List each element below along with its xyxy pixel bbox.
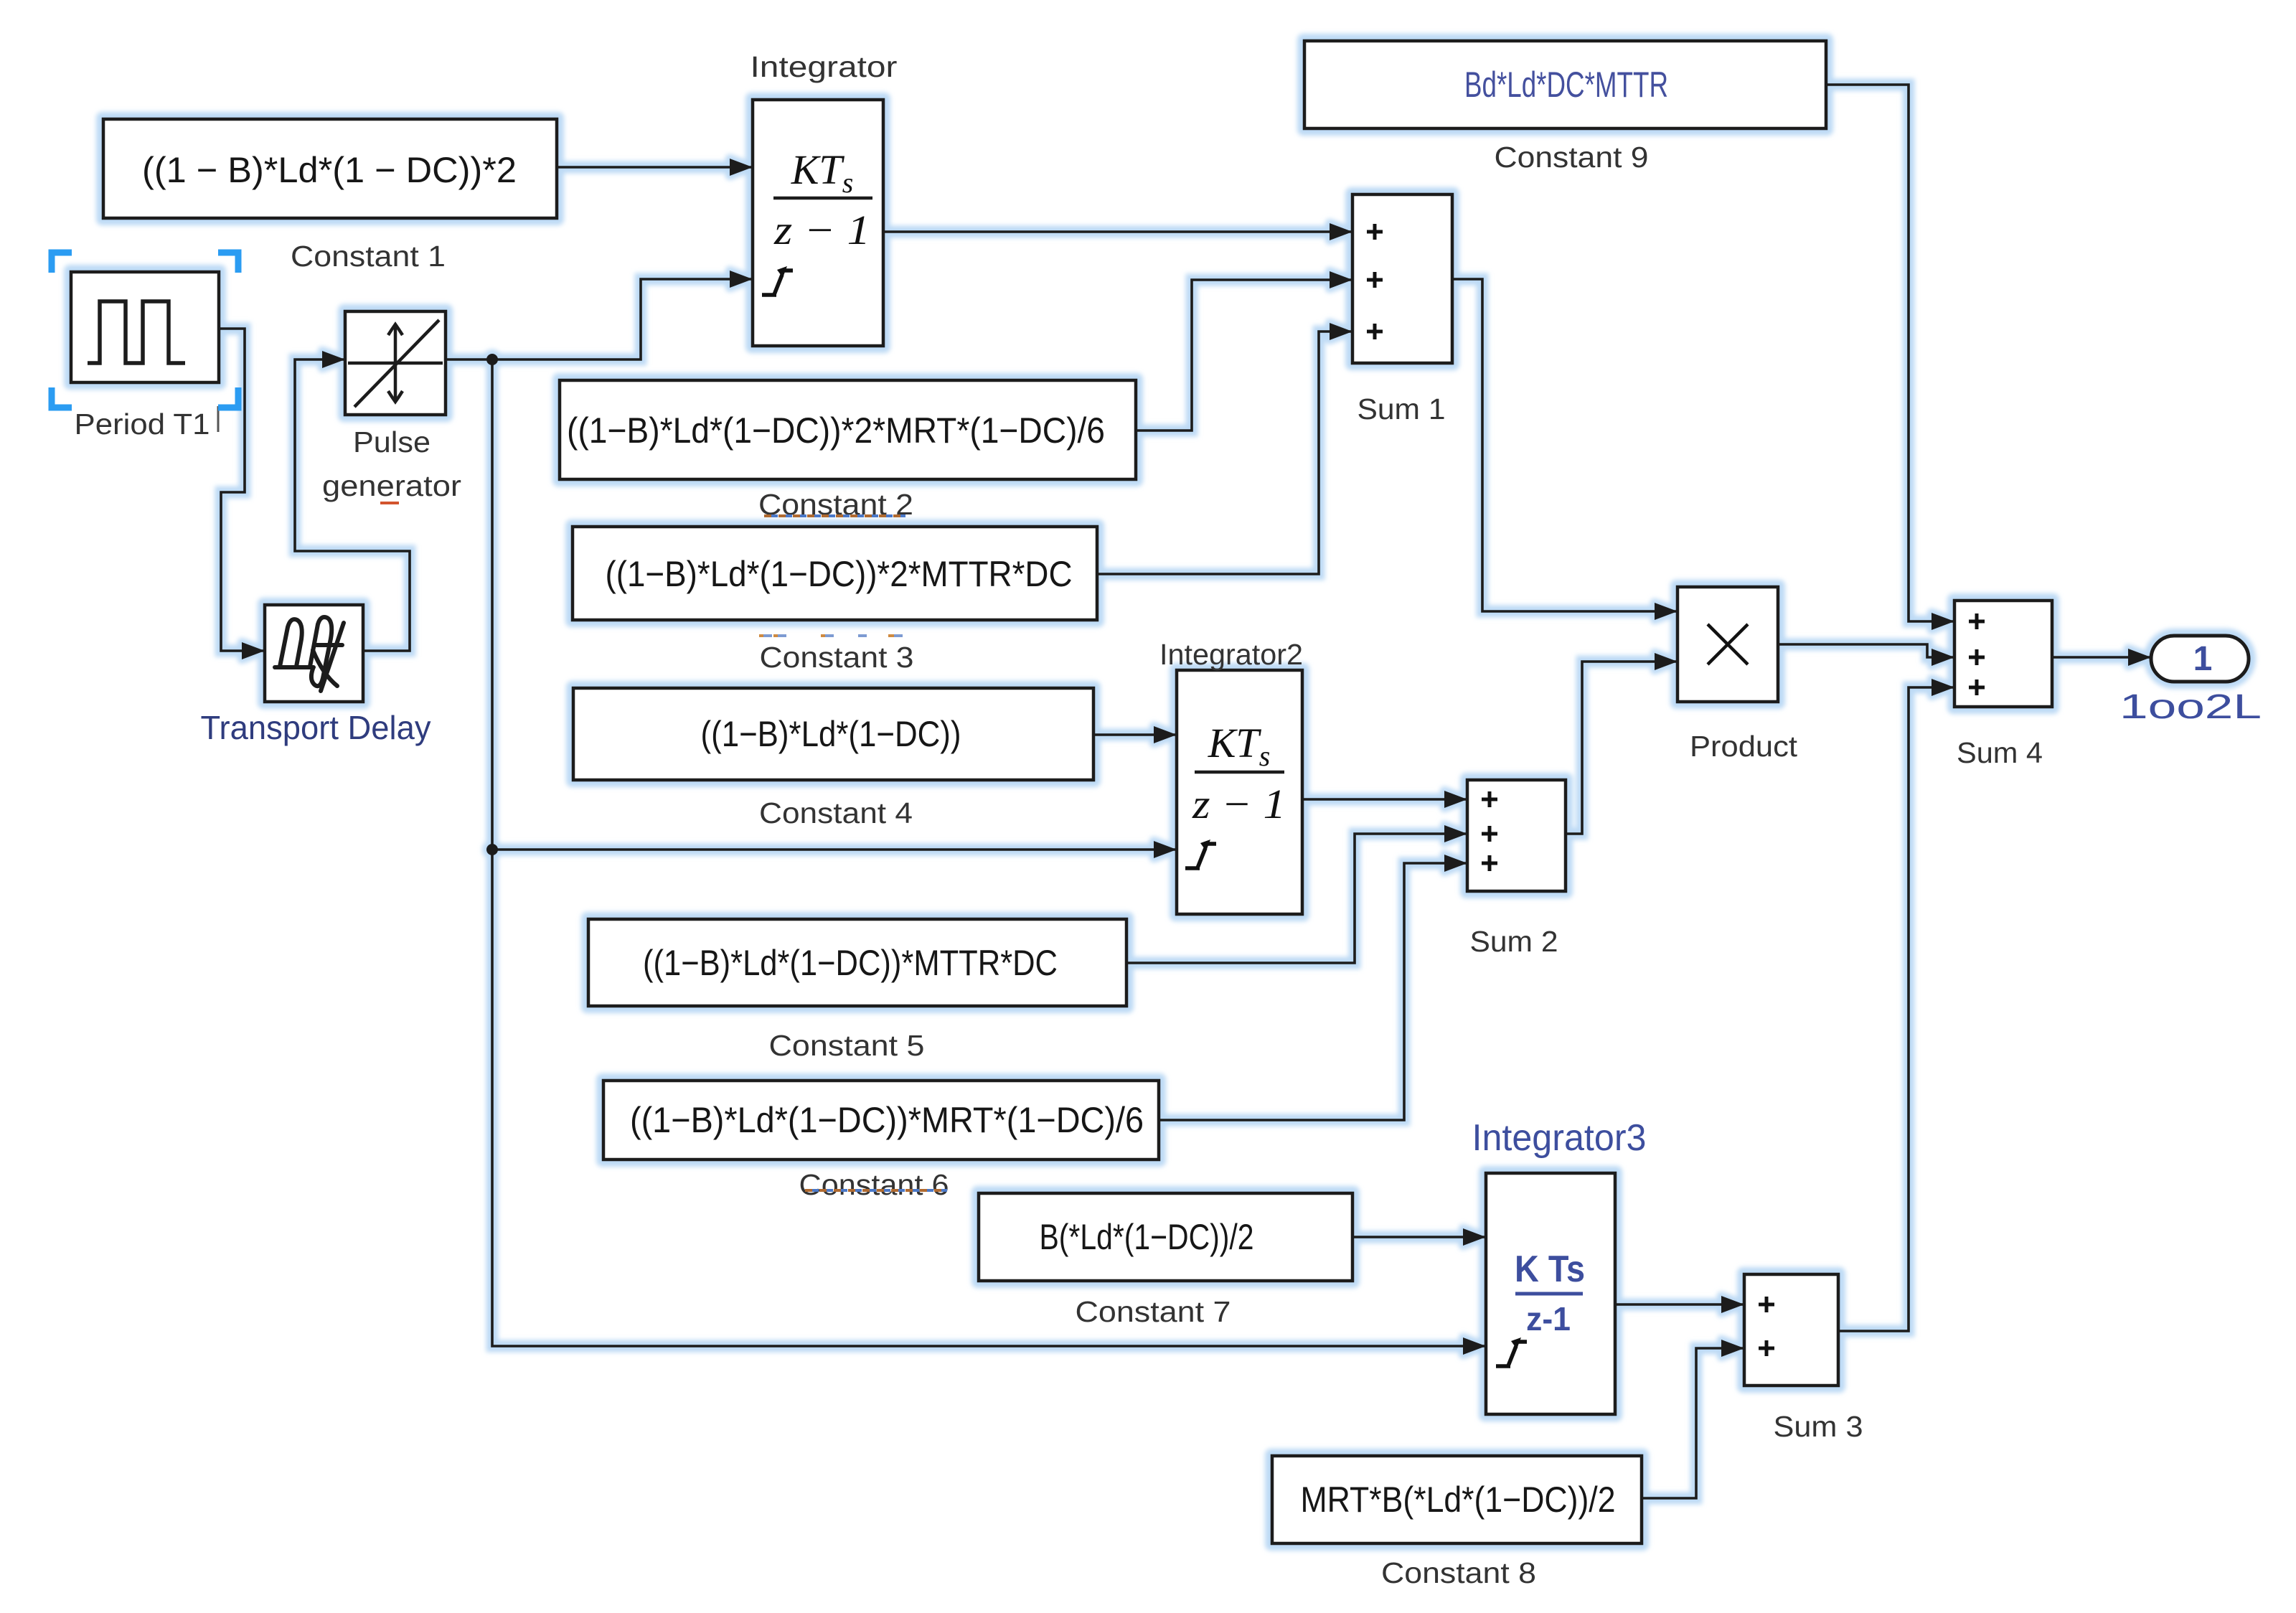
- block Constant 7: [979, 1193, 1352, 1281]
- wire Sum4 -> outport: [2052, 656, 2151, 659]
- block Constant 5: [588, 919, 1126, 1006]
- arrowhead Sum1 in1: [1330, 223, 1352, 240]
- arrowhead Integrator in1: [730, 159, 753, 176]
- svg-text:Sum 2: Sum 2: [1470, 925, 1558, 958]
- arrowhead PulseGenerator in: [322, 351, 345, 368]
- svg-text:generator: generator: [322, 469, 461, 502]
- wire Constant8 -> Sum3 in2: [1642, 1348, 1744, 1498]
- squiggle underline Constant 2: [764, 514, 905, 517]
- wire Constant7 -> Integrator3 in1: [1352, 1236, 1486, 1238]
- block Constant 1: [103, 119, 557, 218]
- svg-text:Constant 6: Constant 6: [799, 1168, 949, 1201]
- svg-text:Product: Product: [1690, 730, 1798, 763]
- block Integrator (KTs/(z-1) discrete): [753, 100, 883, 346]
- wire Constant2 -> Sum1 in2: [1136, 280, 1352, 431]
- block Constant 2: [560, 380, 1136, 479]
- wire PeriodT1 -> TransportDelay: [219, 329, 265, 651]
- svg-text:Period T1: Period T1: [75, 408, 210, 441]
- svg-text:Integrator3: Integrator3: [1472, 1117, 1647, 1159]
- wire Constant3 -> Sum1 in3: [1097, 331, 1352, 574]
- wire Product -> Sum4 in2: [1778, 644, 1954, 657]
- block Constant 8: [1272, 1456, 1642, 1543]
- wire junction trunk down: [492, 359, 1486, 1346]
- reset trigger icon Integrator3: [1496, 1342, 1527, 1368]
- svg-text:((1−B)*Ld*(1−DC))*2*MRT*(1−DC): ((1−B)*Ld*(1−DC))*2*MRT*(1−DC)/6: [567, 410, 1105, 451]
- svg-text:Constant 5: Constant 5: [769, 1029, 925, 1062]
- svg-text:Sum 3: Sum 3: [1774, 1410, 1863, 1443]
- svg-text:Constant 7: Constant 7: [1076, 1295, 1231, 1328]
- arrowhead outport in: [2128, 649, 2151, 666]
- source block Period T1 (pulse wave icon): [71, 272, 219, 382]
- block Sum 2: [1467, 780, 1566, 891]
- wire Integrator2 -> Sum2 in1: [1302, 798, 1467, 801]
- block Transport Delay (delay scribble icon): [265, 605, 363, 702]
- arrowhead Sum1 in3: [1330, 323, 1352, 340]
- wire branch -> Integrator2 reset: [492, 848, 1177, 851]
- wire TransportDelay -> PulseGenerator: [295, 359, 410, 651]
- arrowhead Sum2 in1: [1444, 791, 1467, 808]
- block Integrator3 (K Ts/z-1 discrete): [1486, 1173, 1615, 1414]
- svg-text:B(*Ld*(1−DC))/2: B(*Ld*(1−DC))/2: [1040, 1217, 1254, 1257]
- wire PulseGenerator -> Integrator reset: [446, 279, 753, 359]
- svg-text:((1−B)*Ld*(1−DC)): ((1−B)*Ld*(1−DC)): [701, 714, 961, 754]
- svg-text:1oo2L: 1oo2L: [2119, 688, 2262, 726]
- block Constant 9: [1304, 41, 1826, 128]
- block Integrator2 (KTs/(z-1) discrete): [1177, 670, 1302, 914]
- svg-text:K Ts: K Ts: [1515, 1248, 1585, 1290]
- output port 1 (oval): [2151, 636, 2249, 682]
- block Sum 3: [1744, 1274, 1838, 1386]
- arrowhead Sum3 in2: [1721, 1340, 1744, 1357]
- arrowhead Product in2: [1655, 653, 1678, 670]
- stray marks above Constant 3: [762, 634, 903, 637]
- wire Integrator -> Sum1 in1: [883, 230, 1352, 233]
- svg-text:Integrator: Integrator: [751, 50, 898, 83]
- junction dot integrator2-reset branch: [486, 844, 498, 855]
- block Constant 4: [573, 688, 1093, 780]
- svg-text:Bd*Ld*DC*MTTR: Bd*Ld*DC*MTTR: [1464, 65, 1668, 105]
- svg-text:Constant 3: Constant 3: [760, 641, 914, 674]
- red mark under generator label: [380, 502, 399, 504]
- svg-text:((1−B)*Ld*(1−DC))*2*MTTR*DC: ((1−B)*Ld*(1−DC))*2*MTTR*DC: [606, 554, 1073, 594]
- svg-text:((1−B)*Ld*(1−DC))*MTTR*DC: ((1−B)*Ld*(1−DC))*MTTR*DC: [643, 943, 1058, 983]
- arrowhead Sum3 in1: [1721, 1296, 1744, 1313]
- wire Sum1 -> Product in1: [1452, 279, 1678, 611]
- arrowhead Integrator reset: [730, 271, 753, 288]
- arrowhead Integrator3 in1: [1463, 1228, 1486, 1246]
- squiggle underline Constant 6: [805, 1189, 947, 1192]
- wire Constant5 -> Sum2 in2: [1126, 834, 1467, 963]
- svg-text:z − 1: z − 1: [773, 207, 870, 253]
- svg-text:Transport Delay: Transport Delay: [201, 709, 431, 746]
- arrowhead Sum2 in2: [1444, 825, 1467, 842]
- reset trigger icon Integrator2: [1185, 844, 1216, 870]
- wire Constant9 -> Sum4 in1: [1826, 85, 1954, 621]
- arrowhead Integrator2 reset: [1154, 841, 1177, 858]
- text cursor after Period T1: [217, 406, 220, 432]
- arrowhead Product in1: [1655, 603, 1678, 620]
- svg-text:((1 − B)*Ld*(1 − DC))*2: ((1 − B)*Ld*(1 − DC))*2: [142, 150, 517, 190]
- junction dot pulse-gen output: [486, 354, 498, 365]
- svg-text:Sum 4: Sum 4: [1957, 736, 2043, 769]
- svg-text:z-1: z-1: [1526, 1300, 1571, 1337]
- svg-text:Integrator2: Integrator2: [1159, 638, 1303, 671]
- arrowhead Sum4 in2: [1932, 649, 1954, 666]
- arrowhead Sum4 in1: [1932, 613, 1954, 630]
- block Pulse generator (rate-limiter icon): [345, 311, 446, 415]
- selection brackets Period T1: [52, 253, 72, 273]
- wire Constant4 -> Integrator2 in1: [1093, 733, 1177, 736]
- arrowhead Integrator3 reset: [1463, 1337, 1486, 1355]
- wire Constant6 -> Sum2 in3: [1159, 863, 1467, 1120]
- wire Sum3 -> Sum4 in3: [1838, 687, 1954, 1331]
- wire Sum2 -> Product in2: [1566, 662, 1678, 834]
- svg-text:Constant 9: Constant 9: [1495, 141, 1649, 174]
- reset trigger icon Integrator: [762, 271, 793, 296]
- svg-text:MRT*B(*Ld*(1−DC))/2: MRT*B(*Ld*(1−DC))/2: [1301, 1480, 1616, 1520]
- svg-text:z − 1: z − 1: [1192, 781, 1286, 827]
- svg-text:Constant 4: Constant 4: [759, 796, 913, 829]
- wire Constant1 -> Integrator in1: [557, 166, 753, 169]
- svg-text:((1−B)*Ld*(1−DC))*MRT*(1−DC)/6: ((1−B)*Ld*(1−DC))*MRT*(1−DC)/6: [630, 1100, 1144, 1140]
- block Constant 3: [573, 527, 1097, 620]
- arrowhead Integrator2 in1: [1154, 726, 1177, 743]
- block Product (x): [1678, 587, 1778, 702]
- wire Integrator3 -> Sum3 in1: [1615, 1303, 1744, 1306]
- svg-text:1: 1: [2193, 640, 2213, 678]
- arrowhead Sum1 in2: [1330, 271, 1352, 288]
- arrowhead Sum4 in3: [1932, 679, 1954, 696]
- block Sum 1: [1352, 194, 1452, 363]
- arrowhead Sum2 in3: [1444, 855, 1467, 872]
- svg-text:Constant 8: Constant 8: [1381, 1556, 1536, 1589]
- svg-text:Constant 1: Constant 1: [291, 240, 446, 273]
- arrowhead TransportDelay in: [242, 642, 265, 659]
- block Constant 6: [603, 1081, 1159, 1160]
- block Sum 4: [1954, 601, 2052, 707]
- svg-text:Sum 1: Sum 1: [1358, 392, 1446, 425]
- svg-text:Pulse: Pulse: [353, 425, 430, 458]
